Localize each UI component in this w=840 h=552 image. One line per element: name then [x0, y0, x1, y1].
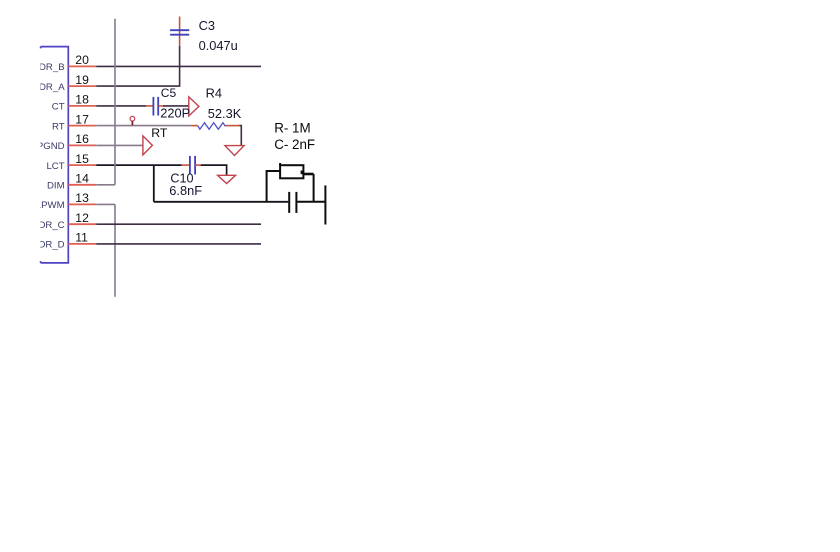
wire pin20 net — [96, 65, 261, 67]
pin 13 stub — [68, 203, 96, 205]
terminal tall vertical — [324, 185, 326, 224]
pin 20 stub — [68, 65, 96, 67]
pin 15 stub — [68, 164, 96, 166]
wire bottom net right part — [297, 201, 325, 203]
snubber left vertical — [267, 171, 281, 202]
ground symbol (R4) — [225, 146, 244, 156]
wire pin13 to vertical (light) — [96, 203, 115, 205]
vertical wire upper segment — [114, 19, 116, 185]
capacitor C3 plates — [170, 30, 189, 35]
svg-text:14: 14 — [75, 172, 89, 186]
svg-text:DR_D: DR_D — [38, 240, 64, 251]
svg-text:DR_A: DR_A — [39, 82, 65, 93]
svg-text:15: 15 — [75, 152, 89, 166]
resistor R4 right pin (red) — [225, 125, 239, 127]
svg-text:12: 12 — [75, 211, 89, 225]
svg-text:CT: CT — [52, 102, 65, 113]
resistor R4 left pin (red) — [191, 125, 198, 127]
wire pin16 to arrow (light) — [96, 144, 143, 146]
svg-text:16: 16 — [75, 132, 89, 146]
snubber right connector — [303, 173, 313, 176]
pin 11 stub — [68, 243, 96, 245]
svg-text:LCT: LCT — [46, 161, 64, 172]
pin 17 stub — [68, 125, 96, 127]
pin 16 stub — [68, 144, 96, 146]
svg-text:R- 1M: R- 1M — [274, 121, 310, 136]
svg-text:220P: 220P — [160, 106, 190, 121]
capacitor C (2nF) plates — [288, 192, 290, 213]
wire bottom net left part — [154, 201, 288, 203]
svg-text:17: 17 — [75, 112, 89, 126]
capacitor C5 left pin (red) — [146, 105, 153, 107]
wire pin17 to R4 (light) — [96, 125, 190, 127]
svg-text:C5: C5 — [161, 86, 177, 100]
svg-text:13: 13 — [75, 191, 89, 205]
svg-text:LPWM: LPWM — [36, 200, 65, 211]
svg-text:18: 18 — [75, 93, 89, 107]
capacitor C5 plates — [153, 97, 158, 116]
svg-text:6.8nF: 6.8nF — [169, 183, 202, 198]
capacitor C10 left pin (red) — [182, 164, 190, 166]
capacitor C10 plates — [190, 156, 195, 175]
net marker stem — [131, 121, 133, 125]
wire C5 to arrow — [163, 105, 189, 107]
wire C10 to ground — [201, 165, 227, 175]
svg-text:11: 11 — [75, 231, 88, 245]
svg-text:52.3K: 52.3K — [208, 106, 242, 121]
pin 19 stub — [68, 85, 96, 87]
wire LCT branch down — [153, 165, 155, 202]
capacitor C3 pin (red) — [179, 17, 181, 46]
capacitor C10 right pin (red) — [195, 164, 201, 166]
resistor R4 zigzag — [198, 123, 226, 129]
off-page arrow (CT net) — [189, 97, 199, 116]
svg-text:DR_C: DR_C — [38, 220, 64, 231]
wire pin14 to vertical (light) — [96, 184, 115, 186]
snubber right vertical — [313, 174, 315, 202]
wire R4 to ground — [239, 126, 241, 146]
svg-text:19: 19 — [75, 73, 89, 87]
resistor box R (1M) — [280, 165, 303, 178]
wire pin12 net — [96, 223, 261, 225]
svg-text:20: 20 — [75, 53, 89, 67]
svg-text:R4: R4 — [206, 85, 222, 100]
resistor box top tick — [279, 163, 281, 165]
IC U1 body — [41, 47, 69, 263]
svg-text:0.047u: 0.047u — [199, 38, 238, 53]
wire pin19 to C3 — [96, 46, 179, 86]
svg-text:C- 2nF: C- 2nF — [274, 137, 315, 152]
resistor box inner step — [301, 171, 303, 175]
svg-text:DIM: DIM — [47, 181, 65, 192]
off-page arrow (PGND net) — [143, 136, 153, 155]
ground symbol (C10) — [218, 175, 236, 183]
svg-text:DR_B: DR_B — [39, 62, 65, 73]
wire pin15 to C10 — [96, 164, 181, 166]
pin 14 stub — [68, 184, 96, 186]
pin 12 stub — [68, 223, 96, 225]
wire pin18 to C5 — [96, 105, 146, 107]
vertical wire lower segment — [114, 204, 116, 296]
net marker circle on RT net — [130, 116, 135, 121]
wire pin11 net — [96, 243, 261, 245]
pin 18 stub — [68, 105, 96, 107]
svg-text:PGND: PGND — [37, 141, 65, 152]
svg-text:C3: C3 — [199, 18, 215, 33]
svg-text:RT: RT — [151, 126, 168, 140]
capacitor C5 right pin (red) — [158, 105, 163, 107]
svg-text:RT: RT — [52, 121, 65, 132]
